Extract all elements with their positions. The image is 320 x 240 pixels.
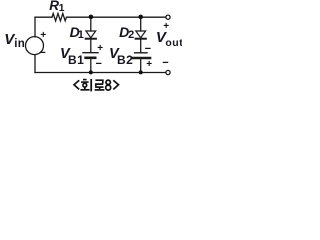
label Vout (156, 30, 166, 45)
battery VB1 plates (83, 52, 98, 54)
terminal Vout plus (166, 15, 170, 19)
wire D2 anode (140, 17, 142, 31)
source minus (39, 48, 45, 59)
wire top rail right of R1 (67, 16, 166, 18)
wire D1 cathode to battery (90, 39, 92, 53)
wire VB2 to bottom rail (140, 58, 142, 72)
caption digit 8 (106, 80, 111, 90)
label VB1 (60, 47, 70, 62)
battery1 minus (96, 59, 102, 70)
battery1 plus (97, 44, 103, 54)
vout minus (162, 58, 168, 69)
label Vin (4, 32, 14, 47)
resistor R1 (52, 14, 67, 21)
wire bottom rail (35, 72, 166, 74)
caption bracket right (113, 80, 118, 89)
caption hangul 로 (95, 80, 105, 90)
label D2 (119, 25, 129, 39)
terminal Vout minus (166, 70, 170, 74)
diode D1 (86, 31, 96, 38)
node junction bottom VB2 (139, 70, 143, 74)
caption bracket left (74, 80, 79, 89)
wire bottom-left vertical (34, 55, 36, 73)
battery2 minus (145, 44, 151, 55)
node junction top D2 (138, 15, 143, 20)
label R1 (49, 0, 59, 13)
caption hangul 회 (80, 79, 91, 92)
wire top rail left of R1 (35, 16, 52, 18)
wire VB1 to bottom rail (90, 58, 92, 72)
wire top-left vertical (34, 17, 36, 37)
battery2 plus (146, 60, 152, 70)
vout plus (163, 22, 169, 32)
source plus (40, 31, 46, 41)
label VB2 (109, 47, 119, 62)
battery VB2 plates (135, 52, 147, 54)
wire D1 anode (90, 17, 92, 31)
wire D2 cathode to battery (140, 39, 142, 53)
label D1 (70, 25, 80, 39)
voltage source Vin (26, 37, 44, 55)
node junction bottom VB1 (89, 70, 93, 74)
diode D2 (136, 31, 146, 38)
node junction top D1 (89, 15, 94, 20)
